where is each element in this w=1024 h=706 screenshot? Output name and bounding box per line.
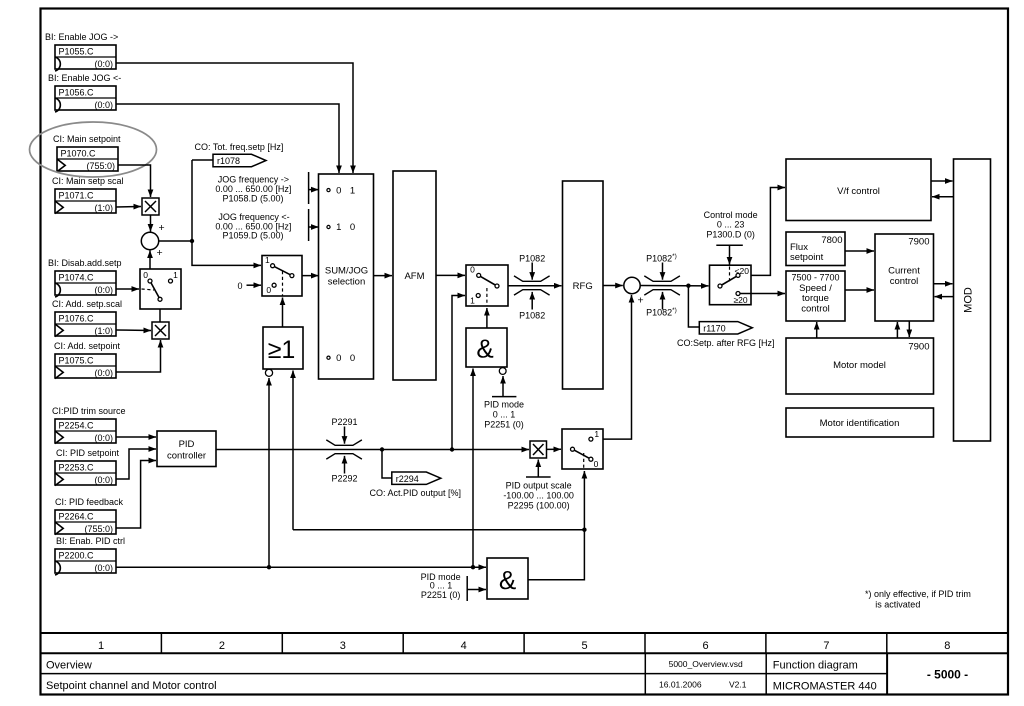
wire PID mode bar to AND2 <box>467 589 486 591</box>
svg-text:BI: Disab.add.setp: BI: Disab.add.setp <box>48 258 122 268</box>
wire SW4 >=20 contact stub <box>740 293 751 295</box>
svg-text:BI: Enable JOG ->: BI: Enable JOG -> <box>45 32 118 42</box>
wire P1074 to switch SW1 <box>116 288 139 290</box>
limiter P2291/P2292 PID output <box>326 427 362 474</box>
svg-text:(1:0): (1:0) <box>94 326 113 336</box>
block flux setpoint 7800 <box>786 232 845 266</box>
svg-text:1: 1 <box>470 295 475 305</box>
svg-text:P1058.D (5.00): P1058.D (5.00) <box>222 193 283 203</box>
svg-text:(0:0): (0:0) <box>94 59 113 69</box>
connector output tag r1078 <box>213 154 266 166</box>
svg-text:CI: PID feedback: CI: PID feedback <box>55 497 124 507</box>
svg-text:0 ... 1: 0 ... 1 <box>493 409 516 419</box>
switch SW4 control mode selector <box>710 265 752 305</box>
svg-text:(755:0): (755:0) <box>86 161 115 171</box>
connector input P1075 <box>54 341 121 379</box>
svg-text:r2294: r2294 <box>396 474 419 484</box>
wire SW2 dashed control <box>282 271 284 296</box>
svg-text:P2200.C: P2200.C <box>59 551 95 561</box>
node junction S1 output <box>190 239 194 243</box>
wire SW4 <20 to V/f control <box>740 188 785 276</box>
wire SW3 dashed control <box>486 288 488 306</box>
connector output tag r1170 <box>699 322 752 334</box>
svg-text:JOG frequency <-: JOG frequency <- <box>218 212 289 222</box>
block PID controller <box>157 431 216 467</box>
block motor model 7900 <box>786 338 934 394</box>
svg-text:0: 0 <box>336 185 341 196</box>
svg-text:7: 7 <box>823 640 829 652</box>
svg-text:≥20: ≥20 <box>734 295 748 305</box>
svg-text:4: 4 <box>461 640 467 652</box>
svg-text:1: 1 <box>350 185 355 196</box>
JOG frequency -> group bar <box>308 172 310 204</box>
svg-text:3: 3 <box>340 640 346 652</box>
switch SW5 PID polarity selector <box>562 429 603 469</box>
wire S2 to switch SW4 <box>641 285 709 287</box>
PID mode group bar AND2 <box>466 576 468 601</box>
svg-text:PID: PID <box>179 439 195 450</box>
svg-text:0 ... 23: 0 ... 23 <box>717 220 745 230</box>
wire MOD to current control <box>935 296 954 298</box>
highlight ellipse around main setpoint <box>30 122 157 177</box>
svg-text:&: & <box>476 334 493 364</box>
wire X1 to summer S1 <box>150 215 152 232</box>
svg-text:+: + <box>157 247 163 259</box>
title block grid <box>41 633 1009 695</box>
switch SW1 additional setpoint disable <box>140 269 181 309</box>
wire current control to MOD <box>934 283 953 285</box>
node junction AND2 output branch <box>582 528 586 532</box>
wire branch to OR gate <box>293 529 584 531</box>
wire PID controller output to multiplier X3 <box>216 449 529 451</box>
wire tap to r2294 tag <box>382 450 392 479</box>
wire P1300 stem to SW4 <box>729 245 731 264</box>
svg-text:CI: Add. setpoint: CI: Add. setpoint <box>54 341 121 351</box>
wire P2295 stem to X3 <box>537 460 539 478</box>
svg-text:P1082: P1082 <box>519 311 545 321</box>
svg-text:2: 2 <box>219 640 225 652</box>
wire AND2 output to SW5 control <box>528 471 584 580</box>
svg-text:CI: Main setpoint: CI: Main setpoint <box>53 134 121 144</box>
node junction r2294 tap <box>380 447 384 451</box>
svg-text:0: 0 <box>143 270 148 280</box>
svg-text:P2251 (0): P2251 (0) <box>484 419 524 429</box>
wire tap to r1170 tag <box>688 286 699 327</box>
block motor identification <box>786 408 934 437</box>
svg-text:&: & <box>499 565 516 595</box>
svg-text:is activated: is activated <box>875 600 920 610</box>
svg-text:P1056.C: P1056.C <box>59 88 95 98</box>
svg-text:control: control <box>801 304 830 315</box>
JOG frequency <- group bar <box>308 209 310 241</box>
svg-text:AFM: AFM <box>404 271 424 282</box>
wire P1076 to multiplier X2 <box>116 329 151 332</box>
node junction P2200 to OR <box>267 565 271 569</box>
wire SW1 dashed control <box>142 289 155 290</box>
wire P2200 enable line <box>116 566 486 568</box>
wire P2254 to PID controller <box>116 436 156 438</box>
svg-text:P1059.D (5.00): P1059.D (5.00) <box>222 230 283 240</box>
wire SW4 >=20 to speed/torque control <box>740 293 785 295</box>
block RFG <box>563 181 604 389</box>
svg-text:P2254.C: P2254.C <box>59 421 95 431</box>
wire PID mode to AND1 inverted input <box>502 376 504 397</box>
connector input P1071 <box>52 176 124 214</box>
block AFM <box>393 171 436 380</box>
svg-text:CI: PID setpoint: CI: PID setpoint <box>56 448 120 458</box>
svg-text:(755:0): (755:0) <box>84 524 113 534</box>
svg-text:7500 - 7700: 7500 - 7700 <box>791 272 839 282</box>
svg-text:Function diagram: Function diagram <box>773 659 858 671</box>
wire motor model to speed/torque control <box>816 322 818 338</box>
svg-text:P1076.C: P1076.C <box>59 314 95 324</box>
svg-text:MICROMASTER 440: MICROMASTER 440 <box>773 680 877 692</box>
wire to r1078 tag <box>192 159 213 161</box>
svg-text:MOD: MOD <box>963 287 975 313</box>
svg-text:16.01.2006: 16.01.2006 <box>659 679 702 689</box>
svg-text:5: 5 <box>582 640 588 652</box>
binector input P2200 <box>55 536 125 575</box>
svg-text:0: 0 <box>470 264 475 274</box>
svg-text:6: 6 <box>702 640 708 652</box>
multiplier X3 PID output scale <box>530 441 547 458</box>
svg-text:0: 0 <box>350 222 355 233</box>
wire SW3 output to RFG <box>499 285 562 287</box>
wire P1070 to multiplier X1 <box>118 165 151 197</box>
OR gate >=1 <box>263 327 303 369</box>
svg-text:Motor identification: Motor identification <box>820 418 900 429</box>
svg-text:P2264.C: P2264.C <box>59 512 95 522</box>
svg-text:BI: Enable JOG <-: BI: Enable JOG <- <box>48 73 121 83</box>
svg-text:1: 1 <box>594 429 599 439</box>
title block column numbers <box>98 640 950 652</box>
svg-text:P2251 (0): P2251 (0) <box>421 590 461 600</box>
wire OR output to SW2 control <box>282 298 284 328</box>
wire SW5 dashed control <box>583 453 585 469</box>
wire flux setpoint to current control <box>845 250 874 252</box>
wire riser to AND1 input <box>472 369 474 568</box>
wire riser to OR inverted input <box>268 378 270 567</box>
svg-text:8: 8 <box>944 640 950 652</box>
wire P2264 to PID controller <box>116 461 156 529</box>
svg-text:(0:0): (0:0) <box>94 475 113 485</box>
wire P2253 to PID controller <box>116 449 156 479</box>
wire AND1 output to SW3 control <box>486 308 488 328</box>
wire SW5 contact 0 stub <box>593 458 603 460</box>
svg-text:1: 1 <box>98 640 104 652</box>
svg-text:(0:0): (0:0) <box>94 100 113 110</box>
svg-text:torque: torque <box>802 293 829 304</box>
svg-text:PID output scale: PID output scale <box>506 481 572 491</box>
connector output tag r2294 <box>392 472 441 484</box>
binector input P1074 <box>48 258 122 297</box>
svg-text:P1055.C: P1055.C <box>59 47 95 57</box>
wire P1056 to SUM/JOG top <box>116 104 339 173</box>
connector input P2264 <box>55 497 124 535</box>
wire P1071 to multiplier X1 <box>116 206 141 209</box>
svg-text:CI: Add. setp.scal: CI: Add. setp.scal <box>52 299 122 309</box>
svg-text:7900: 7900 <box>908 236 929 247</box>
wire S1 output <box>159 240 192 242</box>
limiter P1082 before RFG <box>514 263 550 310</box>
block current control 7900 <box>875 234 934 321</box>
svg-text:5000_Overview.vsd: 5000_Overview.vsd <box>669 659 743 669</box>
wire V/f control to MOD <box>931 180 953 182</box>
svg-text:P1070.C: P1070.C <box>61 149 97 159</box>
AND gate U1 PID mode <box>466 328 507 367</box>
wire RFG to summer S2 <box>603 285 623 287</box>
connector input P2254 <box>52 406 126 444</box>
node junction PID riser <box>450 447 454 451</box>
wire current control to motor model <box>908 321 910 337</box>
svg-text:Overview: Overview <box>46 659 92 671</box>
svg-text:CO:Setp. after RFG [Hz]: CO:Setp. after RFG [Hz] <box>677 338 775 348</box>
svg-text:(0:0): (0:0) <box>94 563 113 573</box>
svg-text:P1082: P1082 <box>519 253 545 263</box>
multiplier X1 main setpoint <box>142 198 159 215</box>
svg-text:Setpoint channel and Motor con: Setpoint channel and Motor control <box>46 680 217 692</box>
wire setpoint riser to switch <box>192 160 261 265</box>
svg-text:-100.00 ... 100.00: -100.00 ... 100.00 <box>503 491 574 501</box>
limiter P1082 after summer <box>644 263 680 310</box>
svg-text:*) only effective, if PID trim: *) only effective, if PID trim <box>865 589 971 599</box>
svg-text:7900: 7900 <box>908 341 929 352</box>
svg-text:P1075.C: P1075.C <box>59 356 95 366</box>
svg-text:P2295 (100.00): P2295 (100.00) <box>508 501 570 511</box>
svg-text:(0:0): (0:0) <box>94 433 113 443</box>
wire P1075 to multiplier X2 <box>116 340 161 372</box>
svg-text:P2253.C: P2253.C <box>59 463 95 473</box>
svg-text:P1074.C: P1074.C <box>59 273 95 283</box>
svg-text:selection: selection <box>328 277 366 288</box>
svg-text:1: 1 <box>265 255 270 265</box>
svg-text:controller: controller <box>167 451 206 462</box>
block V/f control <box>786 159 931 221</box>
svg-text:V2.1: V2.1 <box>729 679 747 689</box>
summer S1 <box>141 232 158 249</box>
svg-text:JOG frequency ->: JOG frequency -> <box>218 174 289 184</box>
node junction P2200 to AND1 <box>471 565 475 569</box>
svg-text:r1078: r1078 <box>217 156 240 166</box>
AND gate U2 PID enable <box>487 558 528 599</box>
wire JOG2 to SUM/JOG <box>309 226 319 228</box>
svg-text:CO: Tot. freq.setp [Hz]: CO: Tot. freq.setp [Hz] <box>195 142 284 152</box>
title block texts <box>46 659 968 693</box>
wire motor model to current control <box>896 322 898 338</box>
svg-text:P1300.D (0): P1300.D (0) <box>706 229 755 239</box>
connector input P1076 <box>52 299 122 337</box>
svg-text:(1:0): (1:0) <box>94 203 113 213</box>
svg-text:PID mode: PID mode <box>484 400 524 410</box>
wire AFM to switch SW3 <box>436 274 465 276</box>
svg-text:1: 1 <box>173 270 178 280</box>
wire P1055 to SUM/JOG top <box>116 63 353 173</box>
block MOD modulator <box>954 159 991 441</box>
svg-text:RFG: RFG <box>573 281 593 292</box>
wire MOD to V/f control <box>932 196 954 198</box>
svg-text:V/f control: V/f control <box>837 186 880 197</box>
svg-text:+: + <box>159 222 165 234</box>
binector input P1056 <box>48 73 121 112</box>
wire branch riser to OR gate input <box>292 371 294 530</box>
svg-text:1: 1 <box>336 222 341 233</box>
switch SW2 setpoint/jog selector <box>262 256 302 297</box>
wire X3 to switch SW5 <box>546 448 561 450</box>
svg-text:control: control <box>890 276 919 287</box>
wire SUM/JOG to AFM <box>374 275 393 277</box>
wire SW1 contact up to summer S1 <box>149 251 151 280</box>
svg-text:BI: Enab. PID ctrl: BI: Enab. PID ctrl <box>56 536 125 546</box>
svg-text:0: 0 <box>336 353 341 364</box>
switch SW3 AFM/PID selector <box>466 265 508 306</box>
svg-text:CI:PID trim source: CI:PID trim source <box>52 406 126 416</box>
block speed/torque control 7500-7700 <box>786 271 845 321</box>
wire PID riser to SW3 input 1 <box>452 296 465 450</box>
svg-text:P2291: P2291 <box>331 417 357 427</box>
svg-text:(0:0): (0:0) <box>94 368 113 378</box>
wire JOG1 to SUM/JOG <box>309 189 319 191</box>
svg-text:<20: <20 <box>735 266 750 276</box>
svg-text:Motor model: Motor model <box>833 360 886 371</box>
T-bar PID output scale P2295 <box>526 476 551 478</box>
svg-text:setpoint: setpoint <box>790 252 824 263</box>
svg-text:+: + <box>638 295 644 307</box>
node junction before SW4 <box>686 284 690 288</box>
wire SW1 common to multiplier X2 <box>159 301 161 322</box>
svg-text:P1071.C: P1071.C <box>59 191 95 201</box>
wire SW5 output to summer S2 <box>593 295 632 439</box>
svg-text:r1170: r1170 <box>703 324 725 334</box>
block SUM/JOG selection <box>319 174 374 379</box>
svg-text:SUM/JOG: SUM/JOG <box>325 265 368 276</box>
wire speed/torque to current control <box>845 289 874 291</box>
svg-text:0: 0 <box>266 285 271 295</box>
connector input P1070 <box>53 134 121 172</box>
T-bar PID mode AND1 <box>492 396 516 398</box>
summer S2 <box>624 277 640 293</box>
multiplier X2 additional setpoint <box>152 322 169 339</box>
binector input P1055 <box>45 32 118 71</box>
svg-text:0: 0 <box>237 281 242 291</box>
T-bar control mode P1300 <box>716 244 743 246</box>
wire SW2 output to SUM/JOG <box>294 275 319 277</box>
svg-text:0: 0 <box>594 459 599 469</box>
svg-text:7800: 7800 <box>821 235 842 246</box>
svg-text:- 5000 -: - 5000 - <box>927 667 968 681</box>
svg-text:(0:0): (0:0) <box>94 285 113 295</box>
connector input P2253 <box>55 448 120 486</box>
svg-text:CO: Act.PID output [%]: CO: Act.PID output [%] <box>370 488 462 498</box>
wire SW4 dashed control <box>729 267 731 284</box>
svg-text:≥1: ≥1 <box>268 336 296 364</box>
svg-text:P2292: P2292 <box>331 474 357 484</box>
svg-text:0: 0 <box>350 353 355 364</box>
